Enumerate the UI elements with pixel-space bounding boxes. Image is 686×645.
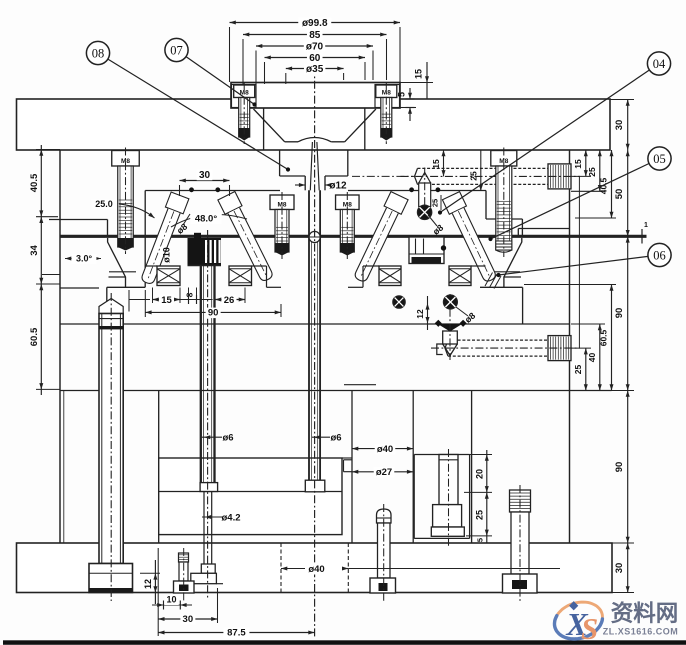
side lock screw upper [401,164,581,189]
dim o40 bottom [281,564,560,575]
svg-text:ø4.2: ø4.2 [221,513,240,524]
svg-text:25: 25 [474,510,484,520]
right lower dim 40 [571,324,605,391]
watermark zl.xs1616.com logo [550,596,678,645]
right V pocket lines [348,266,486,287]
KO step line [344,384,376,386]
mold right edge [569,150,571,543]
dowel dark circle [393,296,405,308]
ejector top ext [342,457,352,459]
svg-text:10: 10 [166,595,176,605]
support pillar centerline [448,449,450,546]
KO hole wall left [351,391,353,544]
mold left edge step line [60,287,99,289]
spring block (black, left V) [188,233,222,266]
cavity insert top line left [145,190,280,192]
sprue bushing flange [280,150,348,176]
cavity insert left edge [144,191,146,288]
svg-text:90: 90 [208,308,219,319]
svg-text:25: 25 [469,171,479,181]
svg-text:ø70: ø70 [306,41,324,52]
stop pin line ticks [435,320,467,327]
sprue taper left [310,142,312,190]
left dim chain [29,145,44,395]
angle 48.0 [171,214,247,228]
angle pin left-V left leg [138,192,189,286]
svg-text:12: 12 [415,309,425,319]
sprue bushing step [305,176,325,190]
svg-text:30: 30 [199,170,211,181]
dim 15 screwdepth [431,150,446,176]
svg-text:ø10: ø10 [162,247,172,263]
dim 5 ticks [406,99,415,121]
dim 85 [243,29,387,84]
right inner dim 40.5 [575,150,616,218]
svg-text:85: 85 [309,30,321,41]
callout 05 [488,147,671,241]
dim 12 bottom left [140,560,160,604]
dim 20-25 pillar [458,450,492,543]
svg-text:25: 25 [431,199,440,207]
svg-text:48.0°: 48.0° [195,214,217,225]
svg-text:5: 5 [475,538,484,542]
dim o99.8 [230,17,401,82]
svg-text:30: 30 [183,614,194,625]
bottom bolt small left [174,548,195,601]
dim 60 [265,52,366,84]
svg-text:34: 34 [29,245,40,256]
dim o12 [295,181,347,192]
svg-text:25: 25 [573,365,583,375]
KO hole wall right [412,391,414,544]
angle pin right-V left leg [351,192,408,285]
dim 25 pin small [431,195,442,210]
svg-text:ø35: ø35 [306,64,324,75]
return pin [89,293,133,601]
svg-text:30: 30 [614,120,625,131]
svg-text:ø6: ø6 [222,433,233,444]
svg-text:20: 20 [474,469,484,479]
right wedge bottom line [480,287,523,324]
right inner dim 15 [571,150,591,176]
dim o8 right [428,215,445,237]
svg-text:90: 90 [614,462,625,473]
svg-text:26: 26 [224,295,235,306]
bottom bolt center (dome head up) [370,504,396,601]
right wedge step line [518,229,569,237]
left wedge profile [108,238,136,287]
left V pocket lines [145,266,281,287]
callout 06 [496,243,671,277]
right wedge profile [493,238,522,287]
parting line (thick) [60,235,647,238]
screw dim ext vertical [578,176,580,348]
bolt M8 center left [270,192,294,259]
dim o8 lower [456,307,477,325]
center rod [309,190,320,480]
svg-text:15: 15 [414,69,424,79]
svg-text:60.5: 60.5 [29,327,40,346]
sprue funnel left slope [254,109,285,142]
svg-text:ø99.8: ø99.8 [302,18,328,29]
upper screw guide dashline [352,175,414,177]
sprue puller lower counterbore [184,583,223,585]
svg-text:87.5: 87.5 [227,628,246,639]
right lower dim 60.5 [524,285,616,391]
left rail inner wall line [63,391,65,544]
svg-text:25.0: 25.0 [95,199,113,209]
svg-text:30: 30 [614,563,625,574]
bottom clamp plate [17,543,613,593]
bottom bolt right (socket head) [503,485,538,601]
svg-text:1: 1 [644,222,648,229]
dim 5 top right [397,88,417,114]
KO hole step notch [344,460,353,472]
svg-text:ø40: ø40 [377,444,393,455]
support pillar base [433,505,462,527]
sprue puller ball [309,231,320,242]
bolt M8 top-plate left [112,148,140,255]
svg-text:8: 8 [185,292,195,297]
angle 3.0 [65,254,101,265]
angle pin guide (right V center pin) [419,168,431,223]
svg-text:05: 05 [653,152,666,166]
ball catch lower (dark circle) [443,295,457,309]
svg-text:15: 15 [161,295,172,306]
stop pin (lower right V) [437,294,462,360]
dim o4.2 label [202,513,241,524]
dim 87.5 bottom [158,600,314,639]
dim o8 left [175,214,190,236]
right rail inner edge [471,391,473,544]
locating ring [231,83,400,109]
dim o10 label [162,247,172,263]
svg-text:50: 50 [614,189,625,200]
bottom plate hole dashed walls [281,543,348,593]
dim 30 bottom [158,548,217,636]
right leg bottom hatch [485,273,501,289]
sprue shelf right [331,141,345,143]
dim o40 mid [352,444,413,455]
svg-text:15: 15 [431,159,441,169]
support plate bottom line [60,390,612,392]
bolt M8 locating-ring left [234,82,255,144]
sprue bushing dome [298,138,331,142]
svg-text:S: S [581,611,598,645]
svg-text:12: 12 [143,579,153,589]
angle pin right-V right leg [442,192,499,285]
ejector rod left (o6/o4.2) [191,230,218,600]
svg-text:ø40: ø40 [308,564,324,575]
svg-text:ø27: ø27 [376,467,392,478]
svg-text:3.0°: 3.0° [76,254,93,264]
dim o6 right [312,433,342,444]
sprue funnel right slope [345,109,376,142]
B-plate bottom line [60,323,570,325]
callout 08 [86,41,290,171]
left rail inner edge [158,391,160,544]
svg-text:40: 40 [587,353,597,363]
main centerline [314,66,316,637]
slide retainer dots [189,187,440,192]
locating ring bolt recess right [375,85,400,108]
callout 07 [165,38,257,106]
sprue shelf left [285,141,298,143]
svg-text:ZL.XS1616.COM: ZL.XS1616.COM [603,627,679,637]
dim chain 15-8-26 [129,290,245,312]
dim chain ext stubs [153,288,246,304]
dim 12 pinrow [415,296,430,330]
svg-text:资料网: 资料网 [611,601,679,626]
spring seat box 4 [449,266,471,286]
ejector retainer+base plates [159,458,342,535]
ejector plate split line [159,491,342,493]
right outer ext lines [610,100,634,593]
svg-text:ø12: ø12 [329,181,347,192]
svg-text:07: 07 [170,43,183,57]
right step block [486,191,522,237]
dim 25 screwdepth [469,150,483,191]
svg-text:90: 90 [614,308,625,319]
sprue taper right [317,142,319,190]
dim 10 bottom [152,595,192,610]
parting line end tick [642,222,648,244]
spring seat box 1 [157,266,180,286]
right inner dim 25 [571,150,605,191]
svg-text:08: 08 [92,46,105,60]
left ext lines [36,150,60,390]
left parting thick segment [60,235,105,238]
dim 30 slides [180,169,230,196]
bolt M8 top-plate right (long) [491,148,517,258]
spring seat box 2 [229,266,252,286]
dim 15 top right [400,62,433,99]
bolt M8 center right [336,192,360,259]
angle 25.0 [92,199,155,218]
top clamp plate [17,99,611,150]
dim o6 left [202,433,234,444]
mold left edge [59,150,61,543]
bottom border bar [3,640,686,645]
side lock screw lower [431,336,580,361]
right outer dim line [614,100,630,593]
sprue bushing spigot sides [264,108,365,150]
B-plate pocket left edge [107,287,145,324]
svg-text:06: 06 [653,248,666,262]
dim 90 slides [145,290,281,319]
bolt M8 locating-ring right [376,82,397,144]
support pillar cylinder [439,455,458,505]
svg-text:5: 5 [397,92,407,97]
right lower dim 25 [571,348,591,390]
callout 04 [438,52,671,215]
cavity insert top line right [348,190,486,192]
svg-text:25: 25 [587,167,597,177]
spring seat box 3 [379,266,401,286]
angle pin left-V right leg [218,191,277,283]
svg-text:40.5: 40.5 [29,173,40,192]
svg-text:15: 15 [573,159,583,169]
ball plunger (dark circle right V) [417,205,431,219]
svg-text:40.5: 40.5 [599,177,609,194]
center rod foot [305,480,325,492]
left step line [49,220,108,237]
dim o35 [286,63,344,84]
support pillar pocket [414,455,469,539]
dim o70 [256,41,373,84]
svg-text:ø6: ø6 [330,433,341,444]
svg-text:60: 60 [309,53,321,64]
dim o27 mid [352,467,413,478]
guide block (right V) [409,237,446,264]
svg-text:04: 04 [653,57,666,71]
support pillar flange [431,527,464,536]
locating ring bolt recess left [232,85,257,108]
